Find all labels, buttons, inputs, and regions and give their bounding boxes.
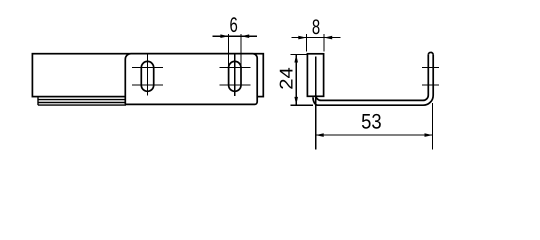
svg-text:53: 53 (361, 110, 382, 133)
dimension 53 line (316, 134, 433, 136)
svg-text:6: 6 (229, 14, 237, 37)
side view: right lip top cap (428, 52, 433, 54)
dimension 53 arrows (316, 133, 433, 137)
dimension 24 line (295, 55, 297, 105)
slot 1 vertical centerline (147, 54, 149, 95)
slot 2 lower arc centerline (219, 84, 250, 86)
slot 2 (obround hole) (229, 61, 241, 91)
side view: bottom strip top surface with bend arcs (316, 55, 429, 101)
dimension 53 right extension line (432, 103, 434, 150)
bracket outer body (top view) (32, 54, 263, 97)
side view: folded bar (left leg) (307, 54, 323, 97)
svg-text:24: 24 (276, 67, 297, 90)
slot 1 upper arc centerline (132, 67, 163, 69)
slot 2 upper arc centerline (219, 67, 250, 69)
dimension 24 extension lines (291, 55, 313, 106)
slot 1 (obround hole) (141, 61, 153, 91)
svg-text:8: 8 (312, 16, 320, 39)
slotted plate (top view, overlapping rounded rect) (125, 54, 257, 105)
side view: slot center tick lower (422, 84, 439, 86)
slot 1 lower arc centerline (132, 84, 163, 86)
slot 2 vertical centerline (234, 54, 236, 96)
dimension 6 line with tails (213, 35, 258, 37)
side view: inner fold line + dim 53 left extension line (315, 56, 317, 149)
dimension 8 arrows (298, 36, 332, 40)
dimension 8 extension lines (307, 34, 325, 52)
dimension 6 arrows (220, 34, 249, 38)
dimension 24 arrows (294, 55, 298, 105)
side view: slot center tick upper (422, 67, 439, 69)
dimension 8 line with tails (291, 37, 340, 39)
side view: bottom strip bottom surface with bend arcs (313, 55, 433, 105)
dimension 6 extension lines (229, 34, 241, 68)
folded layer edge lines below body (38, 97, 126, 105)
